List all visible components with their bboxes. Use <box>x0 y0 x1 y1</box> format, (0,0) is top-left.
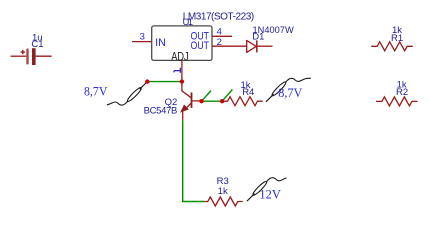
svg-text:2: 2 <box>217 37 222 48</box>
svg-text:R2: R2 <box>396 87 408 98</box>
wire ADJ down to transistor collector (red) <box>182 82 191 98</box>
node base junction dot <box>199 99 203 103</box>
pin 4 stub wire <box>212 35 232 37</box>
wire ADJ junction to probe (green) <box>147 81 182 83</box>
capacitor C1 <box>11 32 52 65</box>
pin number 1 (rotated) <box>174 68 181 73</box>
svg-text:8,7V: 8,7V <box>278 85 303 100</box>
wire stub diagonal at R4 node (green) <box>222 90 232 102</box>
resistor R3 <box>204 176 243 206</box>
diode D1 1N4007W <box>247 25 294 52</box>
svg-text:C1: C1 <box>31 39 43 50</box>
transistor Q2 BC547B <box>144 93 200 121</box>
resistor R4 <box>222 80 263 106</box>
svg-text:IN: IN <box>155 37 166 49</box>
resistor R1 <box>371 25 413 51</box>
pin 3 stub wire <box>132 41 152 43</box>
op-amp U1 LM317 regulator box <box>152 12 255 64</box>
svg-text:1k: 1k <box>218 186 228 197</box>
svg-text:D1: D1 <box>252 32 264 43</box>
svg-text:R1: R1 <box>391 33 403 44</box>
pin 2 stub wire <box>212 45 247 47</box>
node probe-left junction dot <box>145 79 149 83</box>
probe (left, 8.7V measurement at ADJ net) <box>107 82 147 106</box>
wire emitter down and across to R3 (green) <box>183 120 204 201</box>
probe (right, 8.7V measurement at R4) <box>266 78 311 102</box>
svg-text:OUT: OUT <box>191 40 210 52</box>
svg-text:4: 4 <box>217 27 222 38</box>
node R4 junction dot <box>220 99 224 103</box>
svg-text:R4: R4 <box>242 87 254 98</box>
wire base to R4 (green) <box>202 100 223 102</box>
svg-text:12V: 12V <box>259 186 281 201</box>
svg-text:3: 3 <box>140 32 145 43</box>
wire stub diagonal at base node (green) <box>202 91 212 102</box>
svg-text:LM317(SOT-223): LM317(SOT-223) <box>183 12 255 23</box>
svg-text:8,7V: 8,7V <box>84 83 108 98</box>
svg-text:BC547B: BC547B <box>144 106 178 117</box>
resistor R2 <box>376 80 418 106</box>
node ADJ junction dot <box>180 79 184 83</box>
pin 1 stub wire (ADJ) <box>181 60 183 81</box>
probe (bottom, 12V measurement at R3) <box>247 178 287 202</box>
